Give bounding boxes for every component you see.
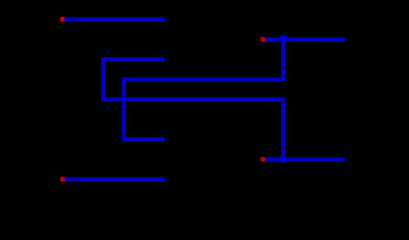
wire net2: from open end, left, down, right, down to junction BR bbox=[103, 59, 283, 159]
endpoint dot TR-right bbox=[340, 37, 346, 43]
endpoint dot BR-left bbox=[263, 157, 269, 163]
endpoint dot net1 open end bbox=[160, 136, 166, 142]
endpoint dot BL-left bbox=[63, 177, 69, 183]
endpoint dot net2 open end bbox=[160, 57, 166, 63]
red pin dot top-left bbox=[60, 17, 65, 22]
endpoint dot TR-left bbox=[263, 37, 269, 43]
wire bottom-right horizontal bbox=[266, 157, 343, 161]
endpoint dot BR-right bbox=[340, 157, 346, 163]
endpoint dot BL-right bbox=[160, 177, 166, 183]
junction octagon bottom-right bbox=[279, 155, 288, 164]
endpoint dot TL-left bbox=[63, 17, 69, 23]
wire bottom-left horizontal bbox=[66, 177, 163, 181]
wire net1: from junction TR down, left, down, right to open end bbox=[124, 40, 283, 140]
red pin dot top-right bbox=[260, 37, 265, 42]
junction octagon top-right bbox=[279, 35, 288, 44]
wire top-right horizontal bbox=[266, 37, 343, 41]
wire top-left horizontal bbox=[66, 17, 163, 21]
endpoint dot TL-right bbox=[160, 17, 166, 23]
red pin dot bottom-left bbox=[60, 177, 65, 182]
red pin dot bottom-right bbox=[260, 157, 265, 162]
